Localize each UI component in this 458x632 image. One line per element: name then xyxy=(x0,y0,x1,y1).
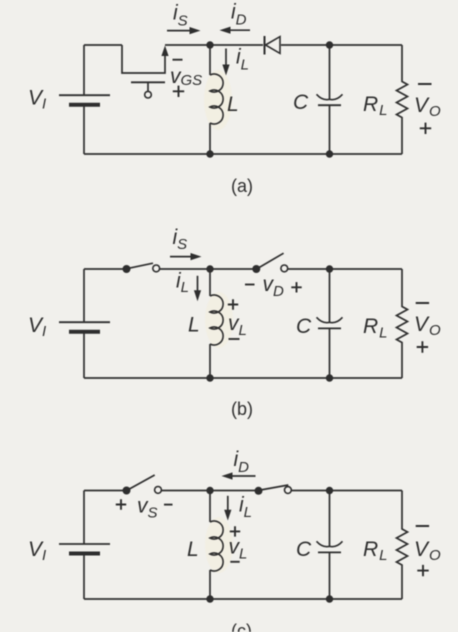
svg-text:C: C xyxy=(296,315,312,338)
svg-text:VI: VI xyxy=(28,314,46,340)
diode D1 xyxy=(265,36,281,55)
node B (top of capacitor, a) xyxy=(326,41,333,48)
label C (a) xyxy=(293,91,309,114)
minus sign of vL (b) xyxy=(229,338,240,340)
label VO (c) xyxy=(414,538,441,564)
minus sign of vGS xyxy=(173,59,183,61)
wire: top rail node B to right corner xyxy=(330,44,403,46)
minus sign of VO (c) xyxy=(416,525,429,527)
svg-text:iD: iD xyxy=(231,1,247,29)
label L (a) xyxy=(227,93,239,116)
wire: node B to right corner (b) xyxy=(330,268,403,270)
plus sign of vL (b) xyxy=(228,299,238,309)
wire: bottom rail (a) xyxy=(84,153,402,155)
resistor RL (b) xyxy=(397,269,408,378)
label vD (b) xyxy=(263,273,285,300)
caption (b) xyxy=(231,399,253,419)
label L (b) xyxy=(188,314,200,337)
svg-text:iS: iS xyxy=(173,2,188,30)
minus sign of vD xyxy=(245,284,255,286)
resistor RL (a) xyxy=(397,45,408,154)
label iL (c) xyxy=(239,494,252,522)
wire: switch to node A (c) xyxy=(162,490,211,492)
wire: left vertical down to battery (c) xyxy=(83,491,85,545)
current arrow iD (a) xyxy=(220,27,251,34)
label vL (c) xyxy=(229,536,248,563)
svg-text:L: L xyxy=(227,93,239,116)
switch S1 open (c) xyxy=(123,475,162,495)
label C (c) xyxy=(296,538,312,561)
svg-text:VO: VO xyxy=(414,313,441,339)
svg-text:L: L xyxy=(188,314,200,337)
svg-text:VO: VO xyxy=(414,538,441,564)
plus sign of vGS xyxy=(173,86,184,97)
wire: top-left rail from battery to MOSFET source xyxy=(84,44,122,46)
node: bottom of inductor (c) xyxy=(206,595,213,602)
svg-text:RL: RL xyxy=(363,315,388,342)
battery V_I (a) xyxy=(59,95,110,154)
switch S2 closed (c) xyxy=(255,485,292,495)
svg-text:vS: vS xyxy=(137,495,158,522)
current arrow iL (c) xyxy=(224,496,231,521)
svg-text:RL: RL xyxy=(363,538,388,564)
wire: left vertical from top rail down to battery V_I xyxy=(83,45,85,95)
svg-text:iL: iL xyxy=(176,270,189,297)
label VI (b) xyxy=(28,314,46,340)
inductor L (a) xyxy=(210,45,223,154)
label RL (b) xyxy=(363,315,388,342)
node: bottom of inductor (b) xyxy=(206,374,213,381)
plus sign of vL (c) xyxy=(230,526,240,536)
capacitor C (c) xyxy=(317,491,343,600)
wire: top rail node A to diode xyxy=(210,44,263,46)
plus sign of VO (b) xyxy=(417,341,428,352)
battery VI (c) xyxy=(59,544,110,599)
inductor L (c) xyxy=(210,491,223,600)
svg-text:(b): (b) xyxy=(231,399,253,419)
plus sign of VO (a) xyxy=(420,123,431,134)
svg-text:RL: RL xyxy=(363,93,388,119)
wire: bottom rail (c) xyxy=(84,598,402,600)
svg-text:iS: iS xyxy=(173,226,188,253)
minus sign of vL (c) xyxy=(230,561,239,563)
svg-text:vL: vL xyxy=(229,536,248,563)
svg-text:iD: iD xyxy=(234,448,250,476)
inductor L (b) xyxy=(210,269,223,378)
plus sign of vS xyxy=(116,499,126,509)
current arrow iD (c) xyxy=(222,472,256,479)
node B (b) xyxy=(326,265,333,272)
caption (a) xyxy=(231,176,253,196)
node A (b) xyxy=(206,265,213,272)
battery VI (b) xyxy=(59,322,110,378)
wire: left vertical down to battery (b) xyxy=(83,269,85,322)
capacitor C (a) xyxy=(317,45,343,154)
wire: switch S2 to node B (b) xyxy=(288,268,330,270)
label VO (a) xyxy=(414,94,441,120)
label C (b) xyxy=(296,315,312,338)
wire: switch S2 to node B (c) xyxy=(291,490,329,492)
svg-text:iL: iL xyxy=(239,494,252,522)
svg-text:vGS: vGS xyxy=(170,65,202,89)
svg-text:iL: iL xyxy=(236,46,249,74)
transistor Q (MOSFET) xyxy=(122,45,169,98)
svg-text:L: L xyxy=(187,538,199,561)
svg-text:C: C xyxy=(296,538,312,561)
label RL (c) xyxy=(363,538,388,564)
wire: node A to switch S2 (b) xyxy=(210,268,253,270)
caption (c) xyxy=(231,621,252,632)
current arrow iL (b) xyxy=(194,276,201,302)
label iS (a) xyxy=(173,2,188,30)
node: bottom of inductor (a) xyxy=(206,150,213,157)
svg-text:VO: VO xyxy=(414,94,441,120)
label iS (b) xyxy=(173,226,188,253)
wire: node A to switch S2 (c) xyxy=(210,490,255,492)
label vGS xyxy=(170,65,202,89)
wire: bottom rail (b) xyxy=(84,377,402,379)
wire: top rail diode to node B xyxy=(281,44,330,46)
minus sign of VO (a) xyxy=(418,83,432,85)
svg-text:vD: vD xyxy=(263,273,285,300)
label L (c) xyxy=(187,538,199,561)
node A (top of inductor, a) xyxy=(206,41,213,48)
plus sign of VO (c) xyxy=(417,565,428,576)
node: bottom of capacitor (b) xyxy=(326,374,333,381)
wire: top rail from MOSFET drain to node A xyxy=(165,44,210,46)
plus sign of vD xyxy=(291,282,301,292)
node A (c) xyxy=(206,487,213,494)
label vL (b) xyxy=(228,312,247,339)
label VI (a) xyxy=(28,87,46,113)
svg-text:VI: VI xyxy=(28,538,46,564)
switch S1 closed (b) xyxy=(123,263,160,273)
svg-text:vL: vL xyxy=(228,312,247,339)
wire: top-left rail to switch (b) xyxy=(84,268,123,270)
label iL (a) xyxy=(236,46,249,74)
node: bottom of capacitor (c) xyxy=(326,595,333,602)
svg-text:C: C xyxy=(293,91,309,114)
wire: switch to node A (b) xyxy=(160,268,210,270)
label VI (c) xyxy=(28,538,46,564)
label iL (b) xyxy=(176,270,189,297)
svg-text:VI: VI xyxy=(28,87,46,113)
label iD (a) xyxy=(231,1,247,29)
minus sign of VO (b) xyxy=(416,302,429,304)
svg-text:(c): (c) xyxy=(231,621,252,632)
wire: top-left rail to switch (c) xyxy=(84,490,123,492)
minus sign of vS xyxy=(164,504,173,506)
label VO (b) xyxy=(414,313,441,339)
capacitor C (b) xyxy=(317,269,343,378)
switch S2 open (b) xyxy=(252,253,287,273)
resistor RL (c) xyxy=(397,491,408,600)
current arrow iS (b) xyxy=(170,253,202,260)
current arrow iS (a) xyxy=(167,27,201,34)
label vS (c) xyxy=(137,495,158,522)
node: bottom of capacitor (a) xyxy=(326,150,333,157)
label RL (a) xyxy=(363,93,388,119)
label iD (c) xyxy=(234,448,250,476)
svg-text:(a): (a) xyxy=(231,176,253,196)
node B (c) xyxy=(326,487,333,494)
wire: node B to right corner (c) xyxy=(330,490,403,492)
current arrow iL (a) xyxy=(222,49,229,76)
